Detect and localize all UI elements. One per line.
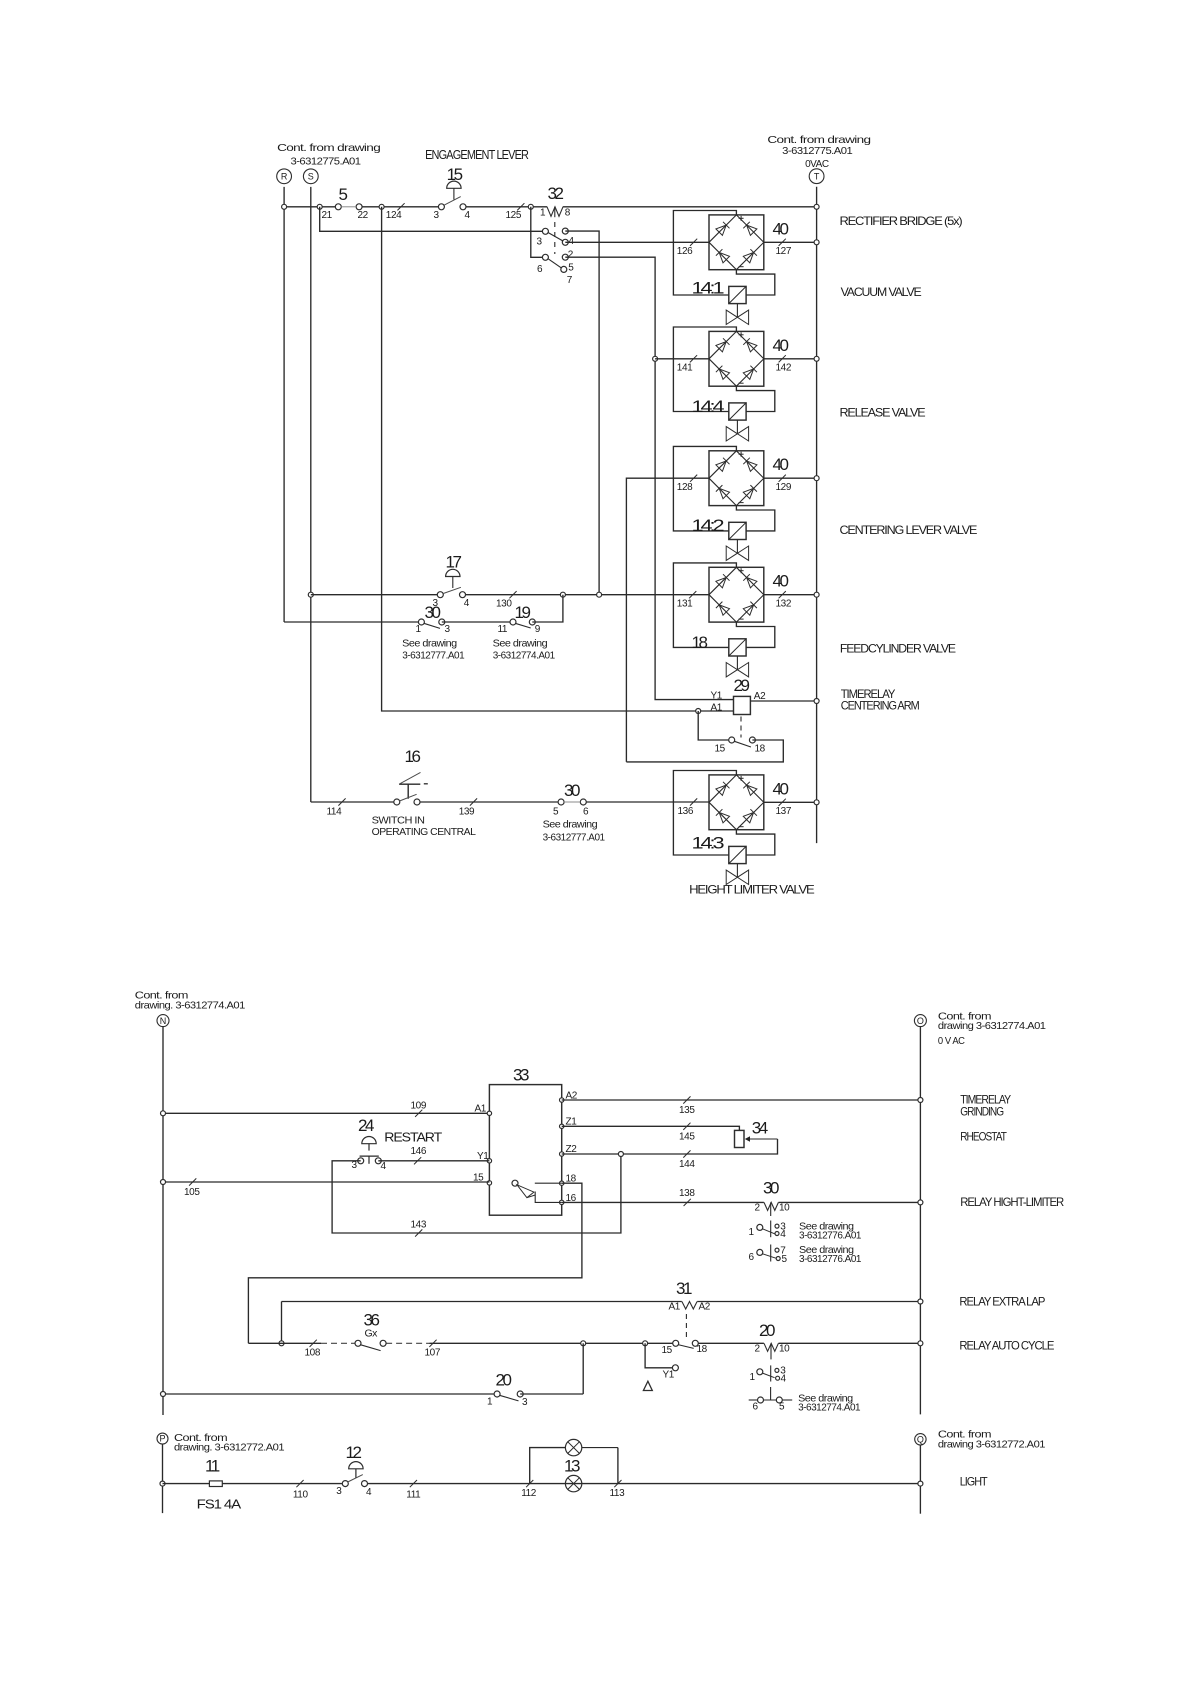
- terminal 146: [414, 1157, 421, 1164]
- svg-text:A2: A2: [566, 1091, 578, 1102]
- svg-text:132: 132: [776, 599, 792, 610]
- svg-text:S: S: [308, 172, 314, 182]
- svg-text:See drawing: See drawing: [402, 637, 457, 649]
- svg-text:LIGHT: LIGHT: [960, 1475, 989, 1489]
- svg-text:142: 142: [776, 363, 792, 374]
- svg-text:29: 29: [734, 676, 750, 695]
- svg-text:0 V AC: 0 V AC: [938, 1035, 965, 1047]
- junction extra-lap riser: [279, 1341, 284, 1346]
- terminal 142: [779, 355, 786, 362]
- terminal 139: [470, 798, 477, 805]
- wire branch to contact 6 of switch 32: [531, 207, 546, 257]
- svg-text:3-6312777.A01: 3-6312777.A01: [402, 650, 465, 662]
- svg-text:6: 6: [583, 807, 589, 818]
- svg-text:113: 113: [610, 1488, 626, 1499]
- svg-text:10: 10: [779, 1344, 790, 1355]
- svg-text:1: 1: [487, 1397, 493, 1408]
- svg-text:1: 1: [540, 208, 546, 219]
- svg-text:145: 145: [679, 1131, 695, 1142]
- svg-text:3-6312774.A01: 3-6312774.A01: [798, 1401, 861, 1413]
- svg-text:130: 130: [496, 599, 512, 610]
- svg-text:108: 108: [305, 1347, 321, 1358]
- svg-text:3-6312774.A01: 3-6312774.A01: [493, 650, 556, 662]
- svg-text:40: 40: [773, 779, 789, 798]
- svg-text:11: 11: [205, 1456, 220, 1475]
- rectifier bridge 40 / solenoid 14:2 (centering lever valve): [709, 451, 764, 506]
- wire bridge1 to T bus: [764, 241, 817, 243]
- svg-text:138: 138: [679, 1188, 695, 1199]
- svg-text:4: 4: [569, 236, 575, 247]
- svg-text:12: 12: [346, 1443, 362, 1462]
- svg-text:14:4: 14:4: [692, 397, 724, 416]
- wire riser extra-lap to auto-cycle: [281, 1302, 283, 1344]
- svg-text:40: 40: [773, 336, 789, 355]
- wire contact5 to release row / timer Y1: [565, 257, 733, 699]
- svg-text:6: 6: [753, 1402, 759, 1413]
- svg-text:A1: A1: [475, 1104, 487, 1115]
- svg-text:131: 131: [677, 599, 693, 610]
- wire R bus vertical: [283, 187, 285, 622]
- svg-text:40: 40: [773, 572, 789, 591]
- svg-text:107: 107: [425, 1347, 441, 1358]
- wire timer33 16 to O bus (relay hight-limiter row): [562, 1201, 764, 1203]
- terminal 105: [189, 1178, 196, 1185]
- terminal 107: [429, 1340, 436, 1347]
- svg-text:21: 21: [322, 210, 333, 221]
- terminal 144: [683, 1150, 690, 1157]
- svg-text:6: 6: [537, 264, 543, 275]
- wire feedcylinder row: [311, 594, 438, 596]
- svg-text:3: 3: [336, 1486, 342, 1497]
- svg-text:0VAC: 0VAC: [805, 158, 829, 170]
- svg-text:15: 15: [715, 744, 726, 755]
- svg-text:RELEASE VALVE: RELEASE VALVE: [840, 406, 926, 420]
- wire restart3 to 143 to Z2: [332, 1154, 621, 1233]
- terminal 127: [779, 239, 786, 246]
- svg-text:3-6312775.A01: 3-6312775.A01: [291, 156, 362, 168]
- wire bridge4 to T bus: [764, 594, 817, 596]
- terminal 137: [779, 799, 786, 806]
- svg-text:P: P: [159, 1434, 165, 1444]
- svg-text:A1: A1: [711, 702, 723, 713]
- junction Y1-stub/auto-cycle: [643, 1341, 648, 1346]
- rectifier bridge 40 / solenoid 14:3 (height limiter valve): [709, 775, 764, 830]
- svg-text:3: 3: [434, 210, 440, 221]
- svg-text:2: 2: [755, 1344, 761, 1355]
- junction 18-riser/auto-cycle: [581, 1341, 586, 1346]
- terminal 113: [614, 1480, 621, 1487]
- wire P stub: [162, 1444, 164, 1513]
- svg-text:32: 32: [548, 184, 564, 203]
- svg-text:137: 137: [776, 806, 792, 817]
- svg-text:136: 136: [678, 806, 694, 817]
- svg-text:1: 1: [750, 1372, 756, 1383]
- svg-text:Y1: Y1: [477, 1151, 489, 1162]
- svg-text:14:2: 14:2: [692, 516, 724, 535]
- svg-text:3: 3: [445, 624, 451, 635]
- terminal 136: [690, 798, 697, 805]
- svg-text:30: 30: [564, 781, 580, 800]
- svg-text:128: 128: [677, 482, 693, 493]
- svg-text:A2: A2: [699, 1302, 711, 1313]
- terminal 143: [415, 1229, 422, 1236]
- svg-text:126: 126: [677, 246, 693, 257]
- svg-text:3-6312776.A01: 3-6312776.A01: [799, 1253, 862, 1265]
- svg-text:Q: Q: [917, 1434, 924, 1444]
- svg-text:125: 125: [506, 210, 522, 221]
- terminal 130: [509, 591, 516, 598]
- svg-text:3: 3: [537, 237, 543, 248]
- wire switch16 row: [311, 801, 396, 803]
- svg-text:16: 16: [405, 747, 421, 766]
- wire bridge3 to T bus: [764, 477, 817, 479]
- terminal 125: [517, 203, 524, 210]
- node P (cont. from drawing 3-6312772.A01): [157, 1433, 168, 1444]
- wire contact 20 row: [163, 1393, 497, 1395]
- terminal 128: [690, 475, 697, 482]
- svg-text:124: 124: [386, 210, 402, 221]
- timer 33 delayed contact: [512, 1180, 518, 1186]
- svg-text:CENTERING ARM: CENTERING ARM: [841, 699, 920, 713]
- wire T bus vertical: [816, 187, 818, 843]
- wire timer29 A2 to T bus: [750, 700, 816, 702]
- switch 32 contact 6-5-7: [542, 254, 548, 260]
- wire contact19 up to row17: [532, 595, 563, 622]
- timer 33 pin circles: [487, 1111, 491, 1115]
- wire bridge2 to T bus: [764, 358, 817, 360]
- svg-text:105: 105: [184, 1187, 200, 1198]
- svg-text:19: 19: [515, 603, 531, 622]
- timer29 delayed contact 15-18: [740, 717, 742, 738]
- wire timer33 Z1 to rheostat 34: [562, 1126, 740, 1130]
- svg-text:4: 4: [464, 598, 470, 609]
- svg-text:RESTART: RESTART: [384, 1130, 442, 1145]
- svg-text:110: 110: [293, 1490, 309, 1501]
- svg-text:drawing. 3-6312772.A01: drawing. 3-6312772.A01: [174, 1442, 285, 1454]
- svg-text:Cont. from drawing: Cont. from drawing: [277, 142, 381, 154]
- svg-text:10: 10: [779, 1203, 790, 1214]
- svg-text:RHEOSTAT: RHEOSTAT: [960, 1129, 1007, 1143]
- relay 30 aux contact 6-07/05 (see drawing 3-6312776.A01): [770, 1245, 772, 1262]
- wire 109 (N to timer 33 A1): [163, 1112, 489, 1114]
- svg-text:FS1 4A: FS1 4A: [197, 1497, 242, 1512]
- relay 31 contact 15-18: [673, 1340, 679, 1346]
- svg-text:drawing 3-6312774.A01: drawing 3-6312774.A01: [938, 1020, 1046, 1032]
- switch 32 linkage dashes: [554, 222, 556, 254]
- wire R to contact 30: [284, 621, 421, 623]
- svg-text:7: 7: [567, 275, 573, 286]
- wire N bus vertical: [162, 1027, 164, 1415]
- svg-text:9: 9: [535, 624, 541, 635]
- svg-text:24: 24: [358, 1116, 374, 1135]
- svg-text:SWITCH IN: SWITCH IN: [372, 815, 425, 827]
- svg-text:143: 143: [411, 1220, 427, 1231]
- svg-text:1: 1: [416, 624, 422, 635]
- proximity switch 36 Gx (dashed): [321, 1342, 355, 1344]
- svg-text:4: 4: [366, 1487, 372, 1498]
- wire Q stub: [919, 1445, 921, 1514]
- svg-text:144: 144: [679, 1159, 695, 1170]
- svg-text:146: 146: [411, 1146, 427, 1157]
- svg-text:RECTIFIER BRIDGE (5x): RECTIFIER BRIDGE (5x): [840, 214, 963, 228]
- rectifier bridge 40 / solenoid 14:1 (vacuum valve): [709, 215, 764, 270]
- svg-text:4: 4: [781, 1374, 787, 1385]
- svg-text:4: 4: [780, 1229, 786, 1240]
- wire Y1 stub: [645, 1343, 672, 1368]
- svg-text:CENTERING LEVER VALVE: CENTERING LEVER VALVE: [840, 523, 978, 537]
- svg-text:drawing. 3-6312774.A01: drawing. 3-6312774.A01: [135, 1000, 246, 1012]
- svg-text:4: 4: [381, 1161, 387, 1172]
- terminal 145: [683, 1123, 690, 1130]
- wire relay auto cycle row: [248, 1342, 321, 1344]
- svg-text:2: 2: [755, 1203, 761, 1214]
- lamp 13 parallel pair: [530, 1448, 566, 1484]
- svg-text:FEEDCYLINDER VALVE: FEEDCYLINDER VALVE: [840, 642, 956, 656]
- svg-text:RELAY HIGHT-LIMITER: RELAY HIGHT-LIMITER: [960, 1195, 1064, 1209]
- svg-text:30: 30: [763, 1179, 779, 1198]
- svg-text:4: 4: [465, 210, 471, 221]
- wire main feed y=207: [284, 206, 335, 208]
- terminal 126: [690, 239, 697, 246]
- terminal 124: [379, 204, 384, 209]
- svg-text:33: 33: [513, 1065, 529, 1084]
- terminal 132: [779, 591, 786, 598]
- svg-text:34: 34: [752, 1119, 768, 1138]
- wire branch to contact 3 of switch 32: [320, 207, 546, 232]
- svg-text:13: 13: [564, 1456, 580, 1475]
- rectifier bridge 40 / solenoid 18 (feedcylinder valve): [709, 567, 764, 622]
- svg-text:40: 40: [773, 219, 789, 238]
- terminal 111: [410, 1480, 417, 1487]
- svg-text:2: 2: [568, 250, 574, 261]
- svg-text:129: 129: [776, 482, 792, 493]
- svg-text:Y1: Y1: [711, 691, 723, 702]
- svg-text:22: 22: [358, 210, 369, 221]
- wire left of bridge3 from timer-contact loop: [626, 478, 709, 762]
- wire timer33 18 route to auto-cycle row: [248, 1183, 582, 1343]
- wire contact2 to rectifier bridge 1: [565, 241, 709, 243]
- svg-text:drawing 3-6312772.A01: drawing 3-6312772.A01: [938, 1438, 1046, 1450]
- svg-text:18: 18: [697, 1344, 708, 1355]
- svg-text:3: 3: [522, 1397, 528, 1408]
- wire O bus vertical: [919, 1027, 921, 1415]
- svg-text:See drawing: See drawing: [543, 819, 598, 831]
- svg-text:5: 5: [779, 1402, 785, 1413]
- svg-text:VACUUM VALVE: VACUUM VALVE: [841, 285, 922, 299]
- relay 30 aux contact 1-03/04 (see drawing 3-6312776.A01): [770, 1221, 772, 1238]
- svg-text:Gx: Gx: [365, 1328, 379, 1340]
- terminal 131: [689, 591, 696, 598]
- wire contact-3 to riser: [520, 1393, 583, 1395]
- svg-text:31: 31: [676, 1279, 692, 1298]
- wire 105 (N to timer 15): [163, 1181, 489, 1183]
- svg-text:141: 141: [677, 363, 693, 374]
- svg-text:40: 40: [773, 455, 789, 474]
- svg-text:Y1: Y1: [663, 1370, 675, 1381]
- terminal 135: [683, 1096, 690, 1103]
- svg-text:6: 6: [749, 1252, 755, 1263]
- svg-text:3-6312775.A01: 3-6312775.A01: [782, 145, 853, 157]
- junction S/feedcylinder row: [308, 592, 313, 597]
- terminal 114: [338, 798, 345, 805]
- wire junction124 to timer 29 A1: [382, 207, 734, 711]
- svg-text:Z1: Z1: [566, 1117, 578, 1128]
- wire riser to contact 15: [698, 711, 732, 740]
- terminal 109: [415, 1110, 422, 1117]
- svg-text:GRINDING: GRINDING: [960, 1105, 1004, 1119]
- wire contact18 loop to bridge3 row: [626, 740, 783, 762]
- svg-text:11: 11: [498, 624, 508, 635]
- junction branch to switch 32 contact 3: [317, 204, 322, 209]
- terminal 129: [779, 475, 786, 482]
- svg-text:20: 20: [496, 1371, 512, 1390]
- wire 146 (restart to timer Y1): [378, 1160, 489, 1162]
- svg-text:N: N: [160, 1016, 167, 1026]
- terminal 138: [684, 1199, 691, 1206]
- junction row17/row19 riser: [560, 592, 565, 597]
- svg-text:109: 109: [411, 1100, 427, 1111]
- svg-text:18: 18: [692, 633, 708, 652]
- svg-text:112: 112: [521, 1488, 537, 1499]
- junction A1/riser: [696, 709, 701, 714]
- svg-text:1: 1: [749, 1227, 755, 1238]
- svg-text:8: 8: [565, 208, 571, 219]
- wire light row: [163, 1483, 343, 1485]
- svg-text:17: 17: [446, 553, 462, 572]
- svg-text:R: R: [281, 172, 288, 182]
- wire relay extra lap row: [282, 1301, 682, 1303]
- svg-text:127: 127: [776, 246, 792, 257]
- svg-text:111: 111: [406, 1490, 421, 1501]
- wire left of bridge2: [655, 358, 709, 360]
- rectifier bridge 40 / solenoid 14:4 (release valve): [709, 331, 764, 386]
- junction contact4-riser/feed row: [597, 592, 602, 597]
- svg-text:30: 30: [425, 603, 441, 622]
- wire rheostat wiper loop to Z2: [562, 1139, 778, 1154]
- svg-text:A1: A1: [669, 1302, 681, 1313]
- svg-text:135: 135: [679, 1105, 695, 1116]
- relay 20 aux contact 1-03/04: [770, 1365, 772, 1381]
- svg-text:3-6312777.A01: 3-6312777.A01: [543, 832, 606, 844]
- wire riser to contact 20 row: [582, 1343, 584, 1394]
- svg-text:5: 5: [782, 1254, 788, 1265]
- wire timer33 A2 to O bus (timerelay grinding): [562, 1099, 921, 1101]
- svg-text:Z2: Z2: [566, 1144, 578, 1155]
- junction branch to switch 32 contact 6: [528, 204, 533, 209]
- svg-text:HEIGHT LIMITER VALVE: HEIGHT LIMITER VALVE: [689, 883, 815, 897]
- svg-text:14:1: 14:1: [692, 279, 724, 298]
- svg-text:114: 114: [327, 807, 343, 818]
- svg-text:See drawing: See drawing: [493, 637, 548, 649]
- svg-text:ENGAGEMENT LEVER: ENGAGEMENT LEVER: [425, 147, 529, 162]
- relay 20 aux contact 6-5 (see drawing 3-6312774.A01): [749, 1399, 758, 1401]
- svg-text:OPERATING CENTRAL: OPERATING CENTRAL: [372, 826, 476, 838]
- svg-text:15: 15: [662, 1345, 673, 1356]
- wire bridge5 to T bus: [764, 801, 817, 803]
- svg-text:O: O: [917, 1016, 924, 1026]
- svg-text:15: 15: [473, 1173, 484, 1184]
- terminal 108: [310, 1340, 317, 1347]
- wire S bus vertical: [310, 187, 312, 802]
- terminal 110: [296, 1480, 303, 1487]
- svg-text:T: T: [814, 172, 820, 182]
- junction main/T: [814, 204, 819, 209]
- symbol triangle: [643, 1381, 652, 1390]
- svg-text:RELAY AUTO CYCLE: RELAY AUTO CYCLE: [959, 1339, 1054, 1353]
- node Q (cont. from drawing 3-6312772.A01): [915, 1434, 926, 1445]
- svg-text:3-6312776.A01: 3-6312776.A01: [799, 1229, 862, 1241]
- svg-text:20: 20: [759, 1321, 775, 1340]
- svg-text:5: 5: [553, 807, 559, 818]
- junction Z2/143: [618, 1152, 623, 1157]
- svg-text:18: 18: [755, 744, 766, 755]
- svg-text:RELAY EXTRA LAP: RELAY EXTRA LAP: [959, 1295, 1045, 1309]
- junction R/main: [282, 204, 287, 209]
- wire contact30 to contact 19: [442, 621, 513, 623]
- switch 32 contact 3-4-2: [542, 228, 548, 234]
- svg-text:5: 5: [568, 263, 574, 274]
- svg-text:139: 139: [459, 807, 475, 818]
- terminal 112: [526, 1480, 533, 1487]
- terminal 141: [690, 355, 697, 362]
- wire contact4 to feedcylinder row: [565, 231, 599, 595]
- node S: [303, 169, 318, 184]
- svg-text:14:3: 14:3: [692, 834, 724, 853]
